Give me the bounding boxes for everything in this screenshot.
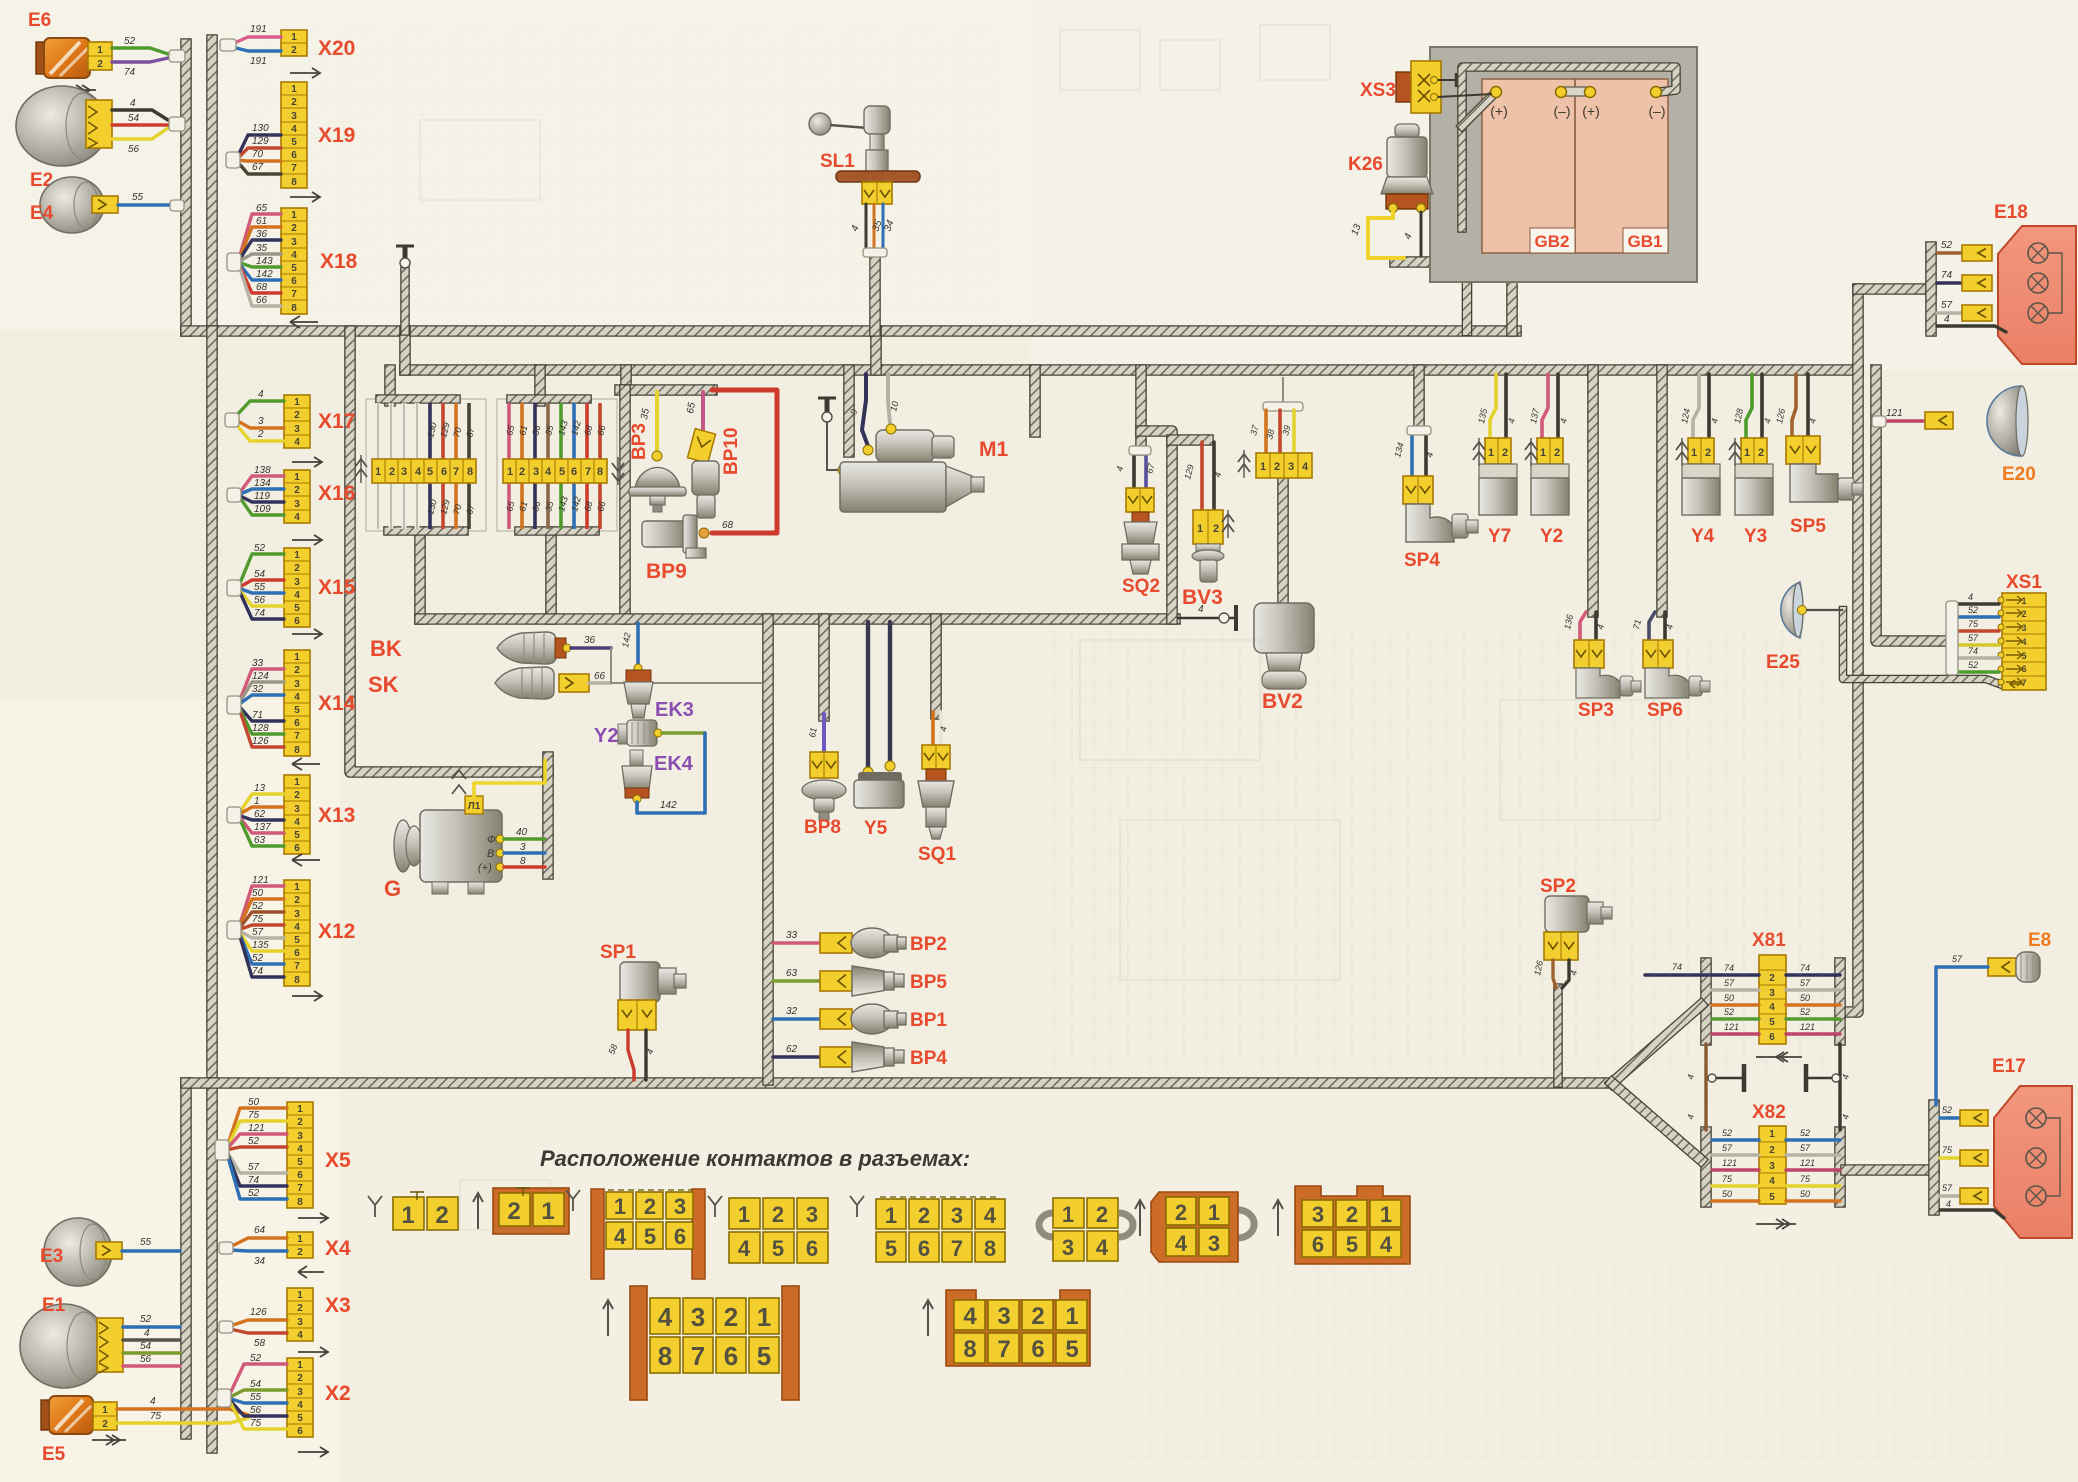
svg-text:2: 2 <box>297 1247 303 1258</box>
svg-text:68: 68 <box>722 520 734 531</box>
svg-text:56: 56 <box>250 1405 262 1416</box>
svg-text:1: 1 <box>1062 1202 1074 1227</box>
svg-text:XS1: XS1 <box>2006 572 2042 593</box>
wire XS3 pin2 to battery (+) <box>1438 94 1492 97</box>
mark E6 arrows <box>62 89 96 91</box>
wire X19 129 <box>236 148 281 160</box>
connector SP2 <box>1544 932 1578 960</box>
mark X16 arrow <box>292 535 322 545</box>
wire X81 74 top <box>1645 973 1712 976</box>
mark X5 arrow <box>298 1213 328 1223</box>
wire X19 67 <box>236 160 281 174</box>
wire SP4 blue 134 <box>1410 432 1414 476</box>
svg-text:1: 1 <box>541 1198 554 1225</box>
mark X14 arrow <box>292 758 320 770</box>
mark Y3 chevrons <box>1729 442 1741 450</box>
svg-text:3: 3 <box>997 1303 1010 1330</box>
wire BP2 33 <box>773 941 820 945</box>
svg-text:50: 50 <box>248 1097 260 1108</box>
wire harness fork upper diagonal <box>1612 1005 1701 1083</box>
wire X82 121 right <box>1786 1168 1840 1171</box>
wire X13 62 <box>238 815 284 820</box>
mark X81 arrow <box>1756 1052 1802 1062</box>
wire BK-SK joint <box>611 648 762 683</box>
wire harness X81 right bar <box>1834 963 1846 1040</box>
svg-text:E8: E8 <box>2028 930 2051 951</box>
svg-text:5: 5 <box>297 1413 303 1424</box>
legend connector 6pin plain <box>729 1198 760 1229</box>
svg-text:56: 56 <box>254 595 266 606</box>
battery label GB2 <box>1530 228 1575 253</box>
wire harness battery left drop <box>1462 228 1473 331</box>
svg-text:6: 6 <box>674 1224 686 1249</box>
wire harness generator bar <box>542 757 554 874</box>
wire X16 109 <box>238 495 284 515</box>
svg-text:4: 4 <box>1769 1176 1775 1187</box>
connector E17 pin3 <box>1960 1188 1988 1204</box>
wire E8 57 blue <box>1936 967 1988 1105</box>
wire Y5 navy right <box>888 622 892 762</box>
wire SP6 black <box>1663 612 1667 640</box>
svg-text:121: 121 <box>252 875 269 886</box>
wire harness SP2 drop <box>1553 988 1563 1083</box>
svg-text:1: 1 <box>294 652 300 663</box>
svg-text:134: 134 <box>254 478 271 489</box>
svg-text:4: 4 <box>1096 1235 1109 1260</box>
wire harness fork lower diagonal <box>1612 1083 1701 1160</box>
wire X5 74 <box>226 1150 287 1186</box>
svg-text:33: 33 <box>252 658 264 669</box>
mark legend Y4 <box>850 1196 864 1217</box>
connector E18 pin1 <box>1962 245 1992 261</box>
svg-text:36: 36 <box>584 635 596 646</box>
svg-text:50: 50 <box>1800 1189 1810 1199</box>
connector BP1 <box>820 1009 852 1029</box>
svg-text:126: 126 <box>252 736 269 747</box>
junction block 1 with pins 1-8 <box>366 399 486 531</box>
lamp E2 headlamp <box>16 86 108 166</box>
wire E17 75 yellow <box>1940 1156 1960 1159</box>
junction bar XS1 <box>1946 601 1958 675</box>
wire X81 121 right <box>1786 1032 1840 1035</box>
svg-text:1: 1 <box>401 1202 414 1229</box>
svg-text:137: 137 <box>254 822 271 833</box>
svg-text:6: 6 <box>294 718 300 729</box>
wire X5 121 <box>226 1134 287 1150</box>
svg-text:5: 5 <box>772 1236 784 1261</box>
wire Y2 137 <box>1542 374 1548 438</box>
mark legend up3 <box>1273 1200 1283 1236</box>
svg-text:57: 57 <box>1952 954 1963 964</box>
wire harness left trunk vertical C <box>206 331 218 1083</box>
wire harness fuse block 2 feed <box>534 370 546 401</box>
svg-text:2: 2 <box>297 1303 303 1314</box>
connector SP5 <box>1786 436 1820 464</box>
mark E5 arrows <box>92 1439 126 1441</box>
svg-text:8: 8 <box>294 745 300 756</box>
wire E5 4 orange <box>117 1409 248 1415</box>
svg-text:2: 2 <box>1031 1303 1044 1330</box>
wire BV2 orange 38 <box>1278 410 1282 453</box>
sensor BV3 <box>1196 544 1220 552</box>
lamp E25 <box>1781 582 1803 638</box>
svg-text:3: 3 <box>294 499 300 510</box>
svg-text:121: 121 <box>1800 1158 1815 1168</box>
svg-text:BP9: BP9 <box>646 560 687 583</box>
svg-text:5: 5 <box>2021 651 2026 661</box>
svg-text:2: 2 <box>435 1202 448 1229</box>
svg-text:32: 32 <box>252 684 264 695</box>
wire harness BV2 drop <box>1277 477 1289 604</box>
wire harness BP8 drop <box>818 619 830 716</box>
junction funnel X4 <box>219 1242 233 1254</box>
wire E2 red 54 <box>112 123 168 126</box>
battery terminal <box>1491 87 1502 98</box>
ground symbol x405 <box>396 245 414 248</box>
connector L1 <box>465 796 483 814</box>
connector X5 <box>287 1102 313 1208</box>
wire XS1 52 <box>1956 670 1999 673</box>
mark Y4 chevrons <box>1676 442 1688 450</box>
page bleed texture mid <box>1040 630 1830 1070</box>
svg-text:Ф: Ф <box>487 834 496 846</box>
svg-text:2: 2 <box>1213 523 1219 535</box>
wire E18 57 gray <box>1937 311 1962 314</box>
wire E4 blue 55 <box>118 203 170 206</box>
svg-text:1: 1 <box>294 882 300 893</box>
svg-text:6: 6 <box>297 1170 303 1181</box>
switch SL1 body <box>864 106 890 134</box>
svg-text:1: 1 <box>1197 523 1203 535</box>
svg-text:1: 1 <box>1208 1200 1220 1225</box>
connector BP2 <box>820 933 852 953</box>
connector BP8 <box>810 752 838 778</box>
generator G terminals <box>496 835 504 843</box>
wire X14 33 <box>238 669 284 705</box>
wire harness left trunk vertical B <box>206 40 218 331</box>
connector Y2 <box>1537 438 1563 464</box>
relay K26 <box>1395 124 1419 138</box>
wire X82 121 left <box>1712 1168 1759 1171</box>
svg-text:1: 1 <box>1380 1202 1392 1227</box>
wire XS1 57 <box>1956 643 1999 646</box>
svg-text:6: 6 <box>294 843 300 854</box>
svg-text:55: 55 <box>254 582 266 593</box>
svg-text:E1: E1 <box>42 1295 66 1316</box>
svg-text:50: 50 <box>252 888 264 899</box>
svg-text:7: 7 <box>951 1236 963 1261</box>
connector X81 <box>1759 955 1786 1044</box>
svg-text:1: 1 <box>1744 447 1750 459</box>
wire Y3 128 <box>1746 374 1752 438</box>
mark legend Y1 <box>368 1196 382 1217</box>
svg-text:3: 3 <box>533 466 539 478</box>
wire X5 75 <box>226 1121 287 1150</box>
svg-text:E6: E6 <box>28 10 51 31</box>
connector X15 <box>284 548 310 627</box>
wire X5 57 <box>226 1150 287 1173</box>
junction funnel BV2 <box>1263 402 1303 411</box>
wire E25 lead <box>1806 609 1843 611</box>
svg-text:2: 2 <box>294 790 300 801</box>
svg-text:124: 124 <box>252 671 269 682</box>
connector Y7 <box>1485 438 1511 464</box>
connector E18 pin3 <box>1962 305 1992 321</box>
svg-text:121: 121 <box>1722 1158 1737 1168</box>
wire harness ground stub x405 <box>400 270 410 331</box>
wire X15 54 <box>238 580 284 588</box>
connector E17 pin1 <box>1960 1110 1988 1126</box>
legend connector 8pin orange big <box>946 1290 1090 1366</box>
svg-text:E20: E20 <box>2002 464 2036 485</box>
wire Y4 124 <box>1693 374 1699 438</box>
connector E4 <box>92 196 118 213</box>
svg-text:5: 5 <box>757 1341 771 1371</box>
svg-text:75: 75 <box>1800 1174 1811 1184</box>
svg-text:X16: X16 <box>318 482 355 505</box>
svg-text:8: 8 <box>658 1341 672 1371</box>
mark Y7 chevrons <box>1473 442 1485 450</box>
svg-text:1: 1 <box>97 45 103 56</box>
svg-text:75: 75 <box>1942 1145 1953 1155</box>
wire E17 4 black <box>1940 1210 2004 1218</box>
wire Y5 navy left <box>866 622 870 768</box>
wire SQ2 black 4 <box>1132 450 1136 488</box>
wire harness SP4 drop <box>1413 370 1425 428</box>
wire X13 137 <box>238 815 284 833</box>
wire harness X82 to E17 run <box>1846 1164 1934 1176</box>
switch SL1 ball lever <box>809 113 831 135</box>
wire harness E18 bar <box>1925 247 1937 331</box>
wire X81 52 right <box>1786 1017 1840 1020</box>
battery cells GB2 GB1 <box>1482 79 1668 253</box>
junction funnel X12 <box>227 921 241 939</box>
svg-text:57: 57 <box>1968 633 1979 643</box>
svg-text:55: 55 <box>132 192 144 203</box>
wire harness mid horizontal y619 <box>420 613 1175 625</box>
sensor SP3 <box>1576 668 1620 698</box>
svg-text:4: 4 <box>150 1396 156 1407</box>
svg-text:2: 2 <box>1096 1202 1108 1227</box>
svg-text:4: 4 <box>144 1328 150 1339</box>
connector X82 <box>1759 1126 1786 1204</box>
wire X81 74 right <box>1786 973 1840 976</box>
svg-text:2: 2 <box>257 429 264 440</box>
wire X2 75 <box>228 1398 287 1429</box>
wire harness row B horizontal <box>405 364 1858 376</box>
mark legend up5 <box>923 1300 933 1336</box>
svg-text:5: 5 <box>1065 1336 1078 1363</box>
wire harness long bottom horizontal <box>186 1077 1612 1089</box>
svg-text:52: 52 <box>252 901 264 912</box>
wire X12 74 <box>238 930 284 977</box>
wire X19 70 <box>236 160 281 161</box>
wire X82 52 right <box>1786 1138 1840 1141</box>
svg-text:2: 2 <box>102 1419 108 1430</box>
wire X18 142 <box>238 262 281 280</box>
wire K26 black 4 <box>1420 212 1423 256</box>
lamp E17 housing <box>1994 1086 2072 1238</box>
wire M1 navy 9 <box>862 374 868 446</box>
svg-text:8: 8 <box>597 466 603 478</box>
wire E6 green 52 <box>112 48 168 54</box>
svg-text:1: 1 <box>1488 447 1494 459</box>
legend connector 8pin railed big <box>630 1286 647 1400</box>
svg-text:1: 1 <box>102 1405 108 1416</box>
lamp E3 <box>44 1218 112 1286</box>
switch SL1 connector <box>862 182 892 204</box>
svg-text:3: 3 <box>294 804 300 815</box>
mark legend up1 <box>473 1193 483 1229</box>
svg-text:G: G <box>384 876 401 901</box>
sensor SP1 <box>620 962 660 1002</box>
svg-text:1: 1 <box>757 1302 771 1332</box>
svg-text:7: 7 <box>297 1183 303 1194</box>
mark X3 arrow <box>298 1347 328 1357</box>
lamp E6 <box>36 42 48 74</box>
svg-text:2: 2 <box>294 895 300 906</box>
wire X17 3 <box>236 420 284 428</box>
wire X81 121 left <box>1712 1032 1759 1035</box>
wire E18 52 brown <box>1937 251 1962 254</box>
wire SL1 blue 34 <box>882 204 885 250</box>
connector X17 <box>284 395 310 448</box>
svg-text:2: 2 <box>1502 447 1508 459</box>
wire SP5 black 4 <box>1806 374 1810 436</box>
lamp E18 housing <box>1998 226 2076 364</box>
wire L1 yellow <box>474 760 545 796</box>
svg-text:(+): (+) <box>478 862 492 874</box>
legend connector 2pin <box>393 1197 424 1230</box>
connector X2 <box>287 1358 313 1437</box>
svg-text:M1: M1 <box>979 438 1008 461</box>
svg-text:1: 1 <box>375 466 381 478</box>
junction funnel SQ2 <box>1129 446 1151 455</box>
wire harness row A-B link x876 <box>870 331 882 370</box>
connector SK <box>559 674 589 692</box>
svg-text:1: 1 <box>1769 1129 1775 1140</box>
svg-text:4: 4 <box>984 1203 997 1228</box>
svg-text:6: 6 <box>294 616 300 627</box>
svg-text:57: 57 <box>248 1162 260 1173</box>
sensor BP10 body <box>692 461 719 495</box>
wire X3 58 <box>230 1329 287 1333</box>
mark X20 arrow <box>290 68 320 78</box>
junction funnel E2 <box>169 117 185 131</box>
svg-text:1: 1 <box>614 1194 626 1219</box>
svg-text:57: 57 <box>1722 1143 1733 1153</box>
svg-text:8: 8 <box>297 1197 303 1208</box>
svg-text:EK3: EK3 <box>655 699 694 721</box>
svg-text:1: 1 <box>1065 1303 1078 1330</box>
svg-text:BK: BK <box>370 636 402 661</box>
battery terminal link bar <box>1560 87 1590 96</box>
wire X16 138 <box>238 476 284 495</box>
wire harness M1 loop <box>843 370 855 452</box>
wire BP8 purple 61 <box>822 714 826 752</box>
svg-text:57: 57 <box>1941 300 1953 311</box>
svg-text:3: 3 <box>294 909 300 920</box>
mark L1 chevron <box>452 770 466 794</box>
svg-text:56: 56 <box>140 1354 152 1365</box>
svg-text:13: 13 <box>254 783 266 794</box>
svg-text:74: 74 <box>248 1175 260 1186</box>
junction funnel X14 <box>227 696 241 714</box>
svg-text:2: 2 <box>2021 609 2026 619</box>
svg-text:E5: E5 <box>42 1444 66 1465</box>
wire harness BV3 stub <box>1172 434 1208 446</box>
svg-text:2: 2 <box>97 59 103 70</box>
svg-text:52: 52 <box>124 36 136 47</box>
legend connector 6pin railed <box>591 1189 604 1279</box>
svg-text:1: 1 <box>294 777 300 788</box>
wire X12 52 <box>238 930 284 964</box>
svg-text:4: 4 <box>738 1236 751 1261</box>
svg-text:66: 66 <box>594 671 606 682</box>
connector BV3 <box>1193 510 1223 544</box>
svg-text:54: 54 <box>128 113 140 124</box>
svg-text:121: 121 <box>248 1123 265 1134</box>
wire X17 4 <box>236 401 284 416</box>
wire X15 74 <box>238 588 284 619</box>
svg-text:6: 6 <box>571 466 577 478</box>
wire X15 56 <box>238 588 284 606</box>
svg-text:3: 3 <box>951 1203 963 1228</box>
svg-text:75: 75 <box>1968 619 1979 629</box>
wire X18 65 <box>238 214 281 262</box>
mark X15 arrow <box>292 629 322 639</box>
wire BP9 red loop <box>712 390 777 533</box>
svg-text:109: 109 <box>254 504 271 515</box>
wire X82 50 left <box>1712 1199 1759 1202</box>
page bleed texture top <box>240 30 1000 310</box>
connector E8 <box>1988 958 2016 976</box>
wire BP5 63 <box>773 979 820 983</box>
sensor SP5 <box>1790 464 1838 502</box>
junction funnel X16 <box>227 488 241 502</box>
legend connector 4pin orange eared <box>1238 1210 1254 1238</box>
svg-text:3: 3 <box>294 577 300 588</box>
wire SP2 brown 126 <box>1553 960 1556 988</box>
wire E18 74 navy <box>1937 281 1962 284</box>
junction funnel E20 <box>1872 416 1886 427</box>
svg-text:32: 32 <box>786 1006 798 1017</box>
svg-text:2: 2 <box>294 665 300 676</box>
wire XS1 52 <box>1956 615 1999 618</box>
wire harness right trunk vertical <box>1846 289 1858 1012</box>
svg-text:Y4: Y4 <box>1691 526 1715 547</box>
wire BK 36 <box>571 646 611 649</box>
svg-text:52: 52 <box>254 543 266 554</box>
svg-text:4: 4 <box>415 466 422 478</box>
sensor BP5 <box>852 966 884 996</box>
wire Y4 black 4 <box>1707 374 1711 438</box>
wire EK4 blue 142 <box>637 733 705 813</box>
svg-text:4: 4 <box>2021 637 2026 647</box>
svg-text:2: 2 <box>519 466 525 478</box>
connector X18 <box>281 208 307 314</box>
wire SQ1 white <box>939 712 943 745</box>
svg-text:74: 74 <box>254 608 266 619</box>
sensor SQ1 <box>926 769 946 781</box>
wire harness BP3 box top bar <box>620 384 712 396</box>
svg-text:2: 2 <box>1554 447 1560 459</box>
connector SQ2 <box>1126 488 1154 512</box>
wire harness SL1 drop <box>869 258 881 331</box>
wire BV3 black 4 <box>1212 442 1216 510</box>
wire harness E17 bar <box>1928 1105 1940 1210</box>
svg-text:XS3: XS3 <box>1360 80 1396 101</box>
